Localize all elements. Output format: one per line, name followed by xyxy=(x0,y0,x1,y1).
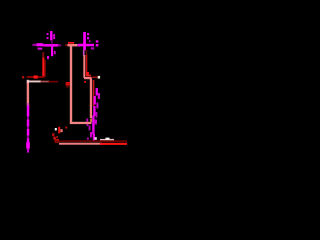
load branch wire (salmon vertical) xyxy=(70,45,72,123)
wire horizontal to left rail xyxy=(27,75,44,78)
capacitor C1 xyxy=(33,43,44,49)
current arrow on net1 xyxy=(68,42,74,44)
R1 left-side fragments xyxy=(86,119,89,140)
wire corner to bottom rail xyxy=(70,119,92,125)
node dot below arrow xyxy=(67,86,69,88)
wire lower horizontal (gradient) xyxy=(27,81,58,83)
node dot at R1 bottom terminal xyxy=(95,137,97,140)
wire from C1 to V1 (node net1) xyxy=(43,44,61,47)
highlight segment on rail right xyxy=(100,138,114,141)
ground marker / label (red specks) xyxy=(52,127,63,143)
current arrow on load wire xyxy=(66,82,70,86)
bottom rail (ground bus) upper line xyxy=(55,140,127,142)
wire net1 middle segment (salmon, voltage-colored) xyxy=(65,44,80,46)
wire from C1 down (red) xyxy=(42,52,46,78)
inductor L1 (vertical coil) xyxy=(26,106,30,153)
voltage source V1 xyxy=(51,41,56,56)
node junction cross (net1 / C2 branch) xyxy=(78,32,94,50)
wire down to R1 xyxy=(90,79,95,119)
left rail wire down (voltage gradient) xyxy=(27,80,29,107)
value label of V1 xyxy=(47,31,56,41)
current arrow on drain wire xyxy=(86,72,89,76)
node dot left of rail corner xyxy=(22,76,24,78)
wire jog right xyxy=(84,75,100,83)
bottom rail lower line (voltage gradient) xyxy=(59,143,127,145)
red dot near corner xyxy=(65,127,67,129)
node dot at V1 minus xyxy=(47,56,49,59)
label text right of C2 top xyxy=(87,33,98,50)
wire from junction down (drain branch) xyxy=(83,50,87,78)
resistor R1 (zigzag) xyxy=(89,88,100,141)
